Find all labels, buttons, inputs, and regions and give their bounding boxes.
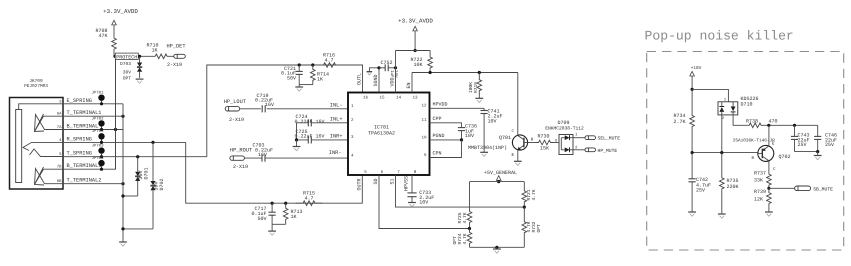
svg-text:11: 11 bbox=[421, 118, 427, 123]
resistor R734 2.7K bbox=[690, 89, 695, 152]
resistor R735 220K bbox=[720, 153, 725, 214]
svg-text:T_TERMINAL1: T_TERMINAL1 bbox=[67, 110, 102, 116]
wire to SB_MUTE bbox=[769, 187, 795, 189]
ground C724/C725 bbox=[295, 138, 298, 141]
capacitor C717 0.1uF 50V bbox=[271, 202, 274, 205]
svg-text:PEJ027M03: PEJ027M03 bbox=[24, 84, 48, 89]
ground R735 bbox=[718, 213, 726, 215]
svg-text:10V: 10V bbox=[419, 199, 428, 205]
svg-text:R_SPRING: R_SPRING bbox=[67, 136, 92, 142]
wire VDD top rail bbox=[396, 50, 431, 52]
svg-text:10V: 10V bbox=[465, 133, 474, 139]
svg-text:7B: 7B bbox=[57, 165, 62, 170]
jack sleeve bbox=[16, 110, 22, 183]
svg-text:HP_ROUT: HP_ROUT bbox=[230, 147, 252, 153]
resistor R732 4.7K OPT bbox=[522, 207, 527, 247]
svg-text:25V: 25V bbox=[825, 142, 834, 148]
wire INL+ to pin2 bbox=[311, 122, 348, 124]
ground C717/R713 bbox=[272, 223, 286, 225]
svg-text:+3.3V_AVDD: +3.3V_AVDD bbox=[398, 18, 433, 25]
svg-text:OPT: OPT bbox=[123, 76, 132, 82]
svg-text:0.22uF 16V: 0.22uF 16V bbox=[295, 134, 325, 140]
svg-text:13: 13 bbox=[412, 96, 418, 101]
ground caps bbox=[795, 151, 818, 153]
svg-text:2-X19: 2-X19 bbox=[167, 62, 182, 68]
svg-text:50V: 50V bbox=[257, 216, 266, 222]
connector SB_MUTE bbox=[795, 186, 811, 191]
wire D710 left leg to base rail bbox=[721, 115, 723, 153]
capacitor C741 2.2uF 10V bbox=[483, 108, 485, 110]
resistor R713 1K bbox=[284, 202, 287, 205]
pin13 EN stub bbox=[411, 73, 413, 93]
svg-text:S1: S1 bbox=[389, 178, 395, 184]
wire E_SPRING bbox=[63, 103, 123, 105]
wire EN to Q701 collector bbox=[412, 72, 518, 74]
svg-text:ENKMC2838-T112: ENKMC2838-T112 bbox=[545, 125, 584, 131]
svg-text:4.7K: 4.7K bbox=[531, 189, 537, 200]
wire +5V rail bbox=[470, 181, 525, 183]
resistor R730 15K bbox=[524, 142, 536, 144]
capacitor C752 1uF 16V bbox=[377, 66, 380, 69]
svg-text:R739: R739 bbox=[754, 189, 766, 195]
capacitor C733 2.2uF 10V bbox=[407, 192, 416, 194]
svg-text:CPN: CPN bbox=[433, 151, 442, 157]
wire +18V to D710 bbox=[692, 89, 728, 101]
capacitor C746 22uF 25V bbox=[817, 125, 819, 136]
svg-text:6B: 6B bbox=[57, 179, 62, 184]
pin8 HPVSS stub bbox=[411, 175, 413, 193]
svg-text:4.7: 4.7 bbox=[324, 57, 333, 63]
svg-text:T_TERMINAL2: T_TERMINAL2 bbox=[67, 178, 102, 184]
vertical bus to ground bbox=[122, 104, 124, 242]
svg-text:MMBT3904(1NP): MMBT3904(1NP) bbox=[468, 145, 507, 151]
svg-text:25V: 25V bbox=[798, 142, 807, 148]
wire emitter rail to caps bbox=[769, 124, 818, 126]
wire INL- to pin1 bbox=[267, 108, 348, 110]
capacitor C721 0.1uF 50V bbox=[298, 63, 301, 66]
svg-text:PGND: PGND bbox=[433, 133, 445, 139]
svg-text:10V: 10V bbox=[488, 118, 497, 124]
svg-text:D702: D702 bbox=[159, 178, 165, 190]
wire OUTR path from R_SPRING bbox=[186, 142, 363, 203]
svg-text:T_SPRING: T_SPRING bbox=[67, 151, 92, 157]
svg-text:CPP: CPP bbox=[433, 116, 442, 122]
svg-text:10K: 10K bbox=[413, 62, 422, 68]
svg-text:16V: 16V bbox=[265, 102, 274, 108]
connector SEL_MUTE bbox=[585, 136, 596, 140]
wire D710 right leg to R738 bbox=[733, 115, 741, 125]
dashed section border bbox=[647, 52, 844, 251]
connector HP_MUTE bbox=[585, 148, 596, 152]
svg-text:15: 15 bbox=[379, 96, 385, 101]
svg-text:16: 16 bbox=[363, 96, 369, 101]
ground C742 bbox=[688, 211, 696, 213]
wire R_SPRING bbox=[63, 141, 186, 143]
wire B_TERMINAL1 bbox=[63, 56, 116, 169]
svg-text:1K: 1K bbox=[317, 77, 323, 83]
svg-text:INL+: INL+ bbox=[330, 117, 343, 123]
wire INR+ to pin3 bbox=[311, 139, 348, 141]
wire PROTECH down to E_SPRING bus bbox=[115, 60, 117, 170]
wire Q702 emitter up bbox=[768, 125, 770, 146]
pin14 VDD stub bbox=[395, 51, 397, 93]
svg-text:VDD: VDD bbox=[389, 77, 395, 86]
svg-text:+3.3V_AVDD: +3.3V_AVDD bbox=[103, 8, 138, 15]
wire resistor ladder bottom bbox=[470, 246, 525, 248]
node PROTECH bbox=[114, 55, 149, 57]
svg-text:E_SPRING: E_SPRING bbox=[67, 98, 92, 104]
wire pin11 CPP bbox=[430, 123, 462, 128]
svg-text:HP_LOUT: HP_LOUT bbox=[224, 99, 246, 105]
svg-text:2-X19: 2-X19 bbox=[233, 164, 248, 170]
pin7 S1 wire bbox=[396, 175, 525, 207]
svg-text:0.22uF 16V: 0.22uF 16V bbox=[295, 119, 325, 125]
svg-text:C752: C752 bbox=[380, 60, 392, 66]
resistor R714 1K bbox=[311, 63, 314, 66]
svg-text:25V: 25V bbox=[696, 188, 705, 194]
jack contact 4-5 spring bbox=[23, 142, 63, 150]
svg-text:D703: D703 bbox=[120, 61, 131, 67]
resistor R725 4.7K bbox=[469, 182, 471, 206]
connector JK700 PEJ027M03 body bbox=[10, 98, 64, 190]
ground Q701 emitter bbox=[514, 160, 522, 162]
svg-text:OPT: OPT bbox=[536, 224, 542, 233]
svg-text:SD: SD bbox=[373, 178, 379, 184]
wire T_TERMINAL2 bbox=[63, 183, 123, 185]
svg-text:+18V: +18V bbox=[691, 66, 702, 71]
node D702 leg bbox=[123, 228, 153, 230]
svg-text:HP_DET: HP_DET bbox=[166, 43, 185, 49]
capacitor C742 4.7uF 25V bbox=[691, 153, 693, 179]
svg-text:HP_MUTE: HP_MUTE bbox=[598, 148, 618, 154]
wire T_SPRING bbox=[63, 156, 207, 158]
svg-text:10: 10 bbox=[421, 136, 427, 141]
svg-text:SGND: SGND bbox=[373, 74, 379, 86]
wire pin12 HPVDD bbox=[430, 107, 485, 109]
svg-text:15K: 15K bbox=[540, 145, 549, 151]
svg-text:33K: 33K bbox=[754, 178, 763, 184]
svg-text:4.7K: 4.7K bbox=[462, 212, 468, 223]
svg-text:B_TERMINAL1: B_TERMINAL1 bbox=[67, 163, 102, 169]
svg-text:D710: D710 bbox=[741, 101, 753, 107]
svg-text:50V: 50V bbox=[287, 75, 296, 81]
resistor R739 12K bbox=[767, 188, 772, 208]
jack contact 7B-6B bbox=[35, 167, 64, 185]
svg-text:PROTECH: PROTECH bbox=[116, 54, 137, 60]
resistor R719 100K pulldown bbox=[478, 71, 481, 74]
resistor R722 10K bbox=[429, 51, 431, 53]
wire SEL_MUTE bbox=[573, 137, 585, 139]
svg-text:14: 14 bbox=[396, 96, 402, 101]
capacitor C736 1uF 10V bbox=[458, 127, 465, 129]
diode D710 KDS226 bbox=[718, 102, 738, 115]
ground R739 bbox=[768, 208, 770, 212]
capacitor C719 0.22uF 16V bbox=[240, 108, 261, 110]
svg-text:INR+: INR+ bbox=[330, 134, 343, 140]
svg-text:12: 12 bbox=[421, 104, 427, 109]
svg-text:EN: EN bbox=[406, 82, 412, 88]
svg-text:INR-: INR- bbox=[329, 150, 342, 156]
ground jack bus bbox=[119, 241, 127, 243]
wire OUTL path to T_SPRING bbox=[207, 65, 363, 157]
svg-text:TPA6130A2: TPA6130A2 bbox=[368, 130, 395, 136]
resistor R721 4.7K bbox=[523, 182, 525, 186]
resistor R738 470 bbox=[742, 123, 769, 128]
svg-text:R738: R738 bbox=[746, 118, 758, 124]
diode D701 30V bbox=[136, 155, 139, 158]
wire base rail bbox=[692, 152, 758, 154]
jack contact 6A-7A bbox=[35, 114, 64, 132]
svg-text:D709: D709 bbox=[557, 120, 569, 126]
wire Q702 collector down bbox=[768, 161, 770, 171]
resistor R724 4.7K OPT bbox=[467, 229, 472, 248]
pin6 SD wire bbox=[379, 175, 470, 229]
svg-text:30V: 30V bbox=[123, 70, 132, 76]
svg-text:4.7K: 4.7K bbox=[462, 233, 468, 244]
svg-text:HPVSS: HPVSS bbox=[403, 176, 409, 191]
svg-text:Pop-up noise killer: Pop-up noise killer bbox=[645, 28, 794, 43]
wire HP_MUTE bbox=[573, 149, 585, 151]
svg-text:OUTR: OUTR bbox=[356, 178, 362, 190]
capacitor C703 0.22uF 16V bbox=[244, 157, 262, 159]
svg-text:R730: R730 bbox=[537, 134, 549, 140]
wire B_TERMINAL bbox=[63, 129, 123, 131]
svg-text:2-X19: 2-X19 bbox=[229, 117, 244, 123]
svg-text:470: 470 bbox=[768, 118, 777, 124]
svg-text:R737: R737 bbox=[754, 171, 766, 177]
wire INR- to pin4 bbox=[265, 157, 348, 159]
svg-text:+5V_GENERAL: +5V_GENERAL bbox=[484, 170, 517, 176]
svg-text:R719: R719 bbox=[473, 82, 479, 93]
svg-text:2.7K: 2.7K bbox=[673, 119, 685, 125]
svg-text:1K: 1K bbox=[291, 214, 297, 220]
transistor Q701 MMBT3904 bbox=[517, 73, 519, 136]
svg-text:6A: 6A bbox=[57, 112, 62, 117]
svg-text:HPVDD: HPVDD bbox=[433, 101, 448, 107]
jack sleeve wire to pin 3 bbox=[19, 104, 63, 110]
svg-text:220K: 220K bbox=[727, 184, 739, 190]
svg-text:Q702: Q702 bbox=[779, 154, 791, 160]
svg-text:47K: 47K bbox=[98, 33, 107, 39]
signal ground flag bbox=[369, 68, 379, 72]
wire pin10 PGND bbox=[430, 139, 462, 141]
svg-text:INL-: INL- bbox=[330, 102, 343, 108]
svg-text:SB_MUTE: SB_MUTE bbox=[813, 187, 833, 193]
svg-text:B_TERMINAL: B_TERMINAL bbox=[67, 124, 99, 130]
ground ladder bbox=[496, 247, 498, 249]
svg-text:D701: D701 bbox=[144, 167, 150, 179]
wire pin9 CPN bbox=[430, 140, 462, 158]
op-amp IC701 TPA6130A2 bbox=[348, 93, 430, 176]
svg-text:SEL_MUTE: SEL_MUTE bbox=[598, 136, 621, 142]
svg-text:12K: 12K bbox=[754, 197, 763, 203]
svg-text:OUTL: OUTL bbox=[356, 73, 362, 85]
resistor R737 33K bbox=[767, 171, 772, 188]
ground C721/R714 bbox=[299, 84, 313, 86]
svg-text:1K: 1K bbox=[151, 48, 157, 54]
diode D703 30V OPT bbox=[138, 55, 141, 58]
svg-text:7A: 7A bbox=[57, 125, 62, 130]
node D701 leg bbox=[123, 195, 138, 197]
diode D702 30V bbox=[151, 141, 154, 144]
pin15 SGND stub bbox=[378, 68, 380, 93]
svg-text:Q701: Q701 bbox=[499, 135, 511, 141]
capacitor C743 22uF 25V bbox=[794, 125, 796, 136]
wire T_TERMINAL1 bbox=[63, 115, 123, 117]
